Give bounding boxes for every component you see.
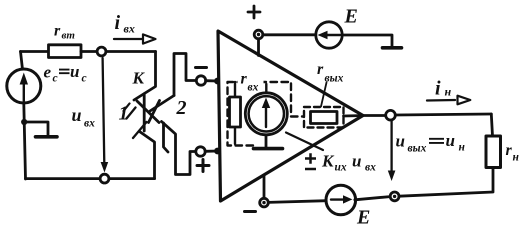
switch K center post: [143, 94, 146, 131]
wire bottom terminal to E source: [268, 201, 327, 203]
svg-text:вх: вх: [248, 82, 259, 94]
svg-text:2: 2: [176, 97, 187, 119]
wire resistor to input node: [81, 50, 97, 53]
ground below dependent source: [265, 135, 268, 148]
r_vyx dashed box: [304, 107, 344, 128]
svg-text:r: r: [54, 23, 61, 40]
svg-text:вх: вх: [124, 22, 135, 36]
svg-text:вт: вт: [62, 30, 76, 42]
wire below source to bottom corner: [24, 103, 26, 179]
svg-text:e: e: [44, 63, 52, 82]
svg-text:К: К: [321, 152, 335, 171]
svg-text:н: н: [459, 142, 466, 154]
svg-text:К: К: [132, 69, 146, 88]
i_vx arrow: [114, 38, 143, 40]
junction dot plus input: [214, 148, 221, 155]
svg-text:u: u: [352, 152, 361, 171]
minus sign bottom: [245, 210, 256, 213]
ground bar left: [36, 135, 58, 139]
source e_c circle: [7, 69, 41, 103]
switch K bottom feed: [140, 132, 155, 179]
wire left vertical: [21, 52, 23, 70]
connector jack lower (to plus input): [162, 122, 197, 175]
plus input terminal circle: [196, 147, 205, 156]
svg-text:н: н: [445, 85, 452, 99]
junction dot minus input: [214, 78, 221, 85]
minus input stub to bottom terminal: [263, 176, 266, 198]
source e_c arrow: [23, 80, 25, 101]
svg-text:с: с: [82, 73, 87, 85]
resistor Rvt body: [49, 45, 82, 58]
svg-text:i: i: [435, 78, 441, 100]
wire minus terminal to triangle: [206, 79, 218, 82]
svg-text:u: u: [446, 131, 455, 150]
svg-text:E: E: [344, 6, 358, 28]
svg-text:i: i: [115, 12, 121, 34]
switch K contact 2 stub: [164, 123, 169, 152]
wire E bottom to output bottom terminal: [355, 197, 390, 200]
i_n arrow: [427, 99, 455, 102]
svg-text:1: 1: [119, 103, 129, 125]
wire bottom of left loop: [26, 177, 155, 180]
output terminal circle: [386, 110, 396, 120]
switch K hatch tick 2: [133, 122, 147, 138]
wire plus terminal to triangle: [205, 150, 218, 153]
svg-text:вых: вых: [325, 73, 344, 85]
label r_vx: [238, 74, 264, 91]
svg-text:u: u: [70, 62, 79, 81]
plus sign top: [248, 6, 260, 18]
svg-text:вх: вх: [365, 162, 376, 174]
wire plus terminal to E source: [263, 33, 316, 36]
svg-text:с: с: [53, 73, 58, 85]
wire input node to switch: [106, 50, 156, 53]
wire apex to output terminal: [363, 114, 386, 117]
E source top arrow (left): [327, 34, 340, 36]
label +-K_ix u_vx: [305, 153, 316, 169]
dependent current source double circle: [245, 93, 287, 135]
switch K crossing blade A: [137, 101, 159, 123]
right loop down to load: [491, 114, 492, 136]
wire top-left horizontal: [21, 50, 49, 53]
svg-text:u: u: [396, 132, 405, 151]
switch K hatch tick 1: [127, 108, 136, 119]
node bottom terminal circle: [100, 174, 109, 183]
E source top circle: [316, 22, 342, 48]
switch K hatch tick 3: [124, 104, 130, 112]
svg-text:r: r: [317, 61, 324, 78]
svg-text:r: r: [241, 71, 248, 88]
u_vx arrow down: [103, 58, 105, 164]
svg-text:вых: вых: [408, 143, 427, 155]
K u_vx leader line: [286, 133, 323, 151]
svg-text:н: н: [513, 152, 520, 164]
u_vyx arrow down: [390, 121, 392, 173]
minus sign label: [196, 66, 207, 69]
plus sign label lower: [197, 160, 209, 172]
wire E to ground right: [342, 35, 392, 47]
r_vx dashed box: [228, 82, 304, 146]
wire load to bottom: [399, 168, 493, 197]
op-amp triangle U1: [218, 31, 363, 201]
r_vyx resistor body: [311, 112, 338, 124]
svg-text:вх: вх: [84, 118, 95, 130]
svg-text:r: r: [506, 142, 513, 159]
plus input stub to top terminal: [257, 39, 260, 56]
minus input terminal circle: [196, 76, 205, 85]
svg-text:их: их: [335, 162, 347, 174]
r_vx resistor body: [235, 82, 266, 144]
junction ground tap: [21, 119, 27, 125]
switch K crossing blade B: [149, 101, 160, 123]
r_vyx lead to apex: [344, 114, 360, 117]
svg-text:E: E: [356, 207, 370, 229]
r_vyx leader line: [321, 83, 327, 107]
dependent source arrow: [265, 107, 267, 127]
minus supply terminal: [260, 198, 269, 207]
svg-text:u: u: [72, 105, 82, 125]
switch K blade upper-right: [150, 96, 174, 112]
switch K top feed: [134, 52, 156, 101]
bottom output terminal: [390, 192, 399, 201]
E source bottom arrow (right): [331, 198, 344, 200]
load resistor r_n: [486, 136, 501, 168]
connector jack upper (to minus input): [174, 54, 197, 96]
E source bottom circle: [326, 185, 356, 215]
ground bar top-right: [383, 46, 402, 50]
plus supply terminal: [254, 30, 263, 39]
wire output to right loop: [395, 114, 491, 115]
node input terminal circle: [97, 47, 106, 56]
wire to ground: [24, 122, 48, 135]
